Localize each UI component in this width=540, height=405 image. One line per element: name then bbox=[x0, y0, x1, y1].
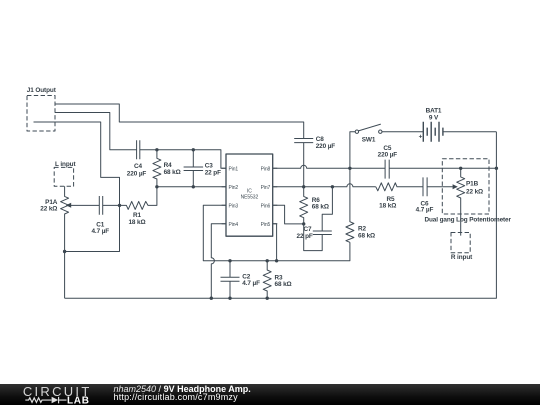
node R4 bottom bbox=[155, 185, 158, 188]
svg-text:4.7 µF: 4.7 µF bbox=[416, 207, 434, 214]
svg-text:Pin2: Pin2 bbox=[229, 185, 239, 191]
node Pin4 on ground bus bbox=[210, 297, 213, 300]
potentiometer P1B 22k bbox=[457, 168, 483, 235]
svg-text:220 µF: 220 µF bbox=[378, 151, 398, 158]
svg-text:22 pF: 22 pF bbox=[205, 169, 221, 176]
wire Pin2 bus bbox=[157, 186, 226, 188]
svg-text:LAB: LAB bbox=[67, 396, 90, 405]
resistor R3 68k bbox=[263, 261, 291, 298]
battery BAT1 9V bbox=[419, 107, 497, 141]
dual gang potentiometer dashed box bbox=[424, 159, 511, 224]
svg-text:Pin4: Pin4 bbox=[229, 222, 239, 228]
svg-text:Pin5: Pin5 bbox=[261, 222, 271, 228]
node P1A bottom junction bbox=[63, 250, 66, 253]
svg-text:22 kΩ: 22 kΩ bbox=[466, 189, 483, 196]
node C7 top on Pin7 bus bbox=[331, 185, 334, 188]
resistor R2 68k bbox=[346, 168, 375, 242]
node C2 top bbox=[228, 259, 231, 262]
svg-text:L input: L input bbox=[55, 161, 76, 168]
node SW1 drop on Pin8 bus bbox=[348, 167, 351, 170]
footer bar bbox=[0, 384, 540, 405]
node Pin5 on feedback bus bbox=[275, 259, 278, 262]
resistor R5 18k bbox=[376, 183, 423, 210]
node C2 bottom bbox=[228, 297, 231, 300]
wire J1 mid pin to C4 left bbox=[55, 113, 137, 150]
potentiometer P1A 22k bbox=[40, 186, 99, 298]
svg-text:Pin8: Pin8 bbox=[261, 166, 271, 172]
svg-text:J1 Output: J1 Output bbox=[27, 87, 57, 94]
svg-text:Pin6: Pin6 bbox=[261, 203, 271, 209]
svg-text:68 kΩ: 68 kΩ bbox=[312, 204, 329, 211]
wire J1 top pin to C8 top bbox=[55, 104, 304, 138]
node R6 bottom / Pin6 node bbox=[302, 222, 305, 225]
wire Pin5 to feedback bus bbox=[273, 224, 277, 261]
capacitor C8 220uF bbox=[294, 136, 335, 187]
wire Pin3 to feedback bus with hop over Pin4 wire bbox=[203, 205, 350, 260]
node C3 bottom bbox=[192, 185, 195, 188]
capacitor C3 22pF bbox=[184, 150, 221, 187]
svg-text:Pin3: Pin3 bbox=[229, 203, 239, 209]
svg-text:22 pF: 22 pF bbox=[297, 233, 313, 240]
node R3 bottom bbox=[266, 297, 269, 300]
wire Pin4 to ground bus bbox=[211, 224, 226, 298]
svg-text:NE5532: NE5532 bbox=[241, 195, 259, 201]
node battery-right T junction bbox=[495, 167, 498, 170]
svg-text:P1B: P1B bbox=[466, 180, 479, 187]
capacitor C2 4.7uF bbox=[221, 261, 261, 298]
capacitor C6 4.7uF bbox=[416, 177, 458, 213]
CircuitLab logo bbox=[0, 384, 110, 405]
svg-text:Pin1: Pin1 bbox=[229, 166, 239, 172]
node C1-R1 junction bbox=[118, 204, 121, 207]
capacitor C4 220uF bbox=[127, 140, 226, 177]
svg-text:BAT1: BAT1 bbox=[426, 107, 442, 114]
node C4-R4 bbox=[155, 148, 158, 151]
capacitor C5 220uF bbox=[378, 145, 497, 179]
svg-text:220 µF: 220 µF bbox=[316, 143, 336, 150]
svg-text:4.7 µF: 4.7 µF bbox=[242, 280, 260, 287]
wire Pin6 to R6 bottom node bbox=[273, 205, 304, 224]
svg-text:SW1: SW1 bbox=[362, 136, 376, 143]
svg-text:220 µF: 220 µF bbox=[127, 170, 147, 177]
capacitor C1 4.7uF bbox=[91, 196, 119, 235]
svg-text:Dual gang Log Potentiometer: Dual gang Log Potentiometer bbox=[424, 217, 511, 224]
svg-text:C4: C4 bbox=[134, 163, 143, 170]
connector L input jack bbox=[54, 161, 76, 186]
node C3 top bbox=[192, 148, 195, 151]
connector J1 (Output jack) bbox=[27, 87, 57, 131]
svg-text:9 V: 9 V bbox=[429, 114, 439, 121]
svg-text:22 kΩ: 22 kΩ bbox=[40, 206, 57, 213]
resistor R6 68k bbox=[300, 187, 329, 224]
node P1B top on bus bbox=[459, 167, 462, 170]
svg-text:R input: R input bbox=[451, 254, 473, 261]
svg-text:4.7 µF: 4.7 µF bbox=[91, 228, 109, 235]
footer title text bbox=[114, 385, 251, 401]
capacitor C7 22pF bbox=[297, 187, 333, 251]
wire Pin7 bus with hop over R2 wire bbox=[273, 184, 376, 187]
wire J1 sleeve to C1/R1 node and P1A bottom bbox=[34, 122, 120, 252]
svg-text:R2: R2 bbox=[358, 225, 367, 232]
svg-text:68 kΩ: 68 kΩ bbox=[164, 169, 181, 176]
node C8 bottom on Pin7 bus bbox=[302, 185, 305, 188]
svg-text:68 kΩ: 68 kΩ bbox=[358, 233, 375, 240]
svg-text:18 kΩ: 18 kΩ bbox=[379, 202, 396, 209]
wire right side rail and ground bus bbox=[65, 132, 497, 299]
svg-text:+: + bbox=[419, 134, 423, 141]
wire Pin8 bus with hop over C8 wire bbox=[273, 165, 385, 168]
svg-text:68 kΩ: 68 kΩ bbox=[275, 281, 292, 288]
svg-text:18 kΩ: 18 kΩ bbox=[128, 219, 145, 226]
node R3 top bbox=[266, 259, 269, 262]
switch SW1 bbox=[350, 124, 423, 168]
svg-text:C8: C8 bbox=[316, 136, 325, 143]
op-amp IC NE5532 bbox=[222, 154, 278, 236]
connector R input jack bbox=[451, 233, 473, 262]
resistor R1 18k bbox=[120, 187, 157, 226]
svg-text:Pin7: Pin7 bbox=[261, 185, 271, 191]
resistor R4 68k bbox=[153, 150, 181, 187]
